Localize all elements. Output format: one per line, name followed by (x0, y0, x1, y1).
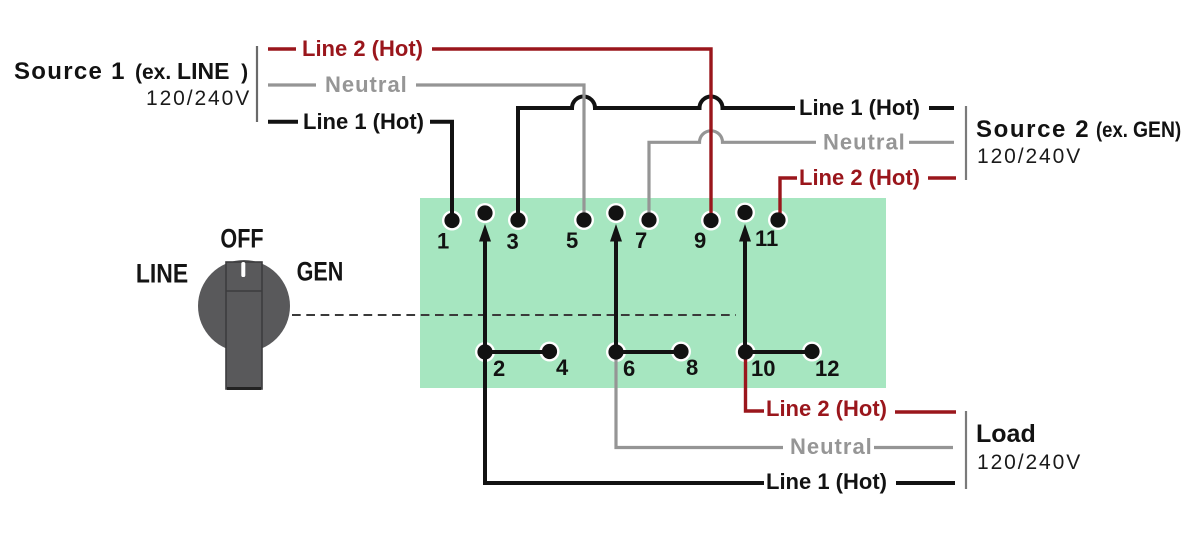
svg-text:3: 3 (507, 229, 519, 254)
svg-text:Source 2: Source 2 (976, 116, 1090, 143)
svg-text:Line 2 (Hot): Line 2 (Hot) (302, 36, 423, 61)
svg-text:7: 7 (635, 228, 647, 253)
svg-text:(ex. LINE ): (ex. LINE ) (135, 58, 248, 84)
svg-text:9: 9 (694, 228, 706, 253)
svg-text:Neutral: Neutral (823, 130, 906, 155)
svg-text:(ex. GEN): (ex. GEN) (1096, 118, 1181, 142)
svg-text:Source 1: Source 1 (14, 58, 126, 85)
svg-text:12: 12 (815, 356, 839, 381)
svg-text:2: 2 (493, 356, 505, 381)
svg-text:LINE: LINE (136, 259, 188, 289)
svg-text:OFF: OFF (220, 224, 263, 254)
svg-text:5: 5 (566, 228, 578, 253)
svg-text:Line 1 (Hot): Line 1 (Hot) (303, 109, 424, 134)
svg-text:10: 10 (751, 356, 775, 381)
svg-text:Line 1 (Hot): Line 1 (Hot) (766, 469, 887, 494)
svg-text:4: 4 (556, 355, 569, 380)
svg-text:120/240V: 120/240V (146, 87, 251, 110)
svg-text:Load: Load (976, 420, 1036, 448)
svg-text:11: 11 (755, 226, 778, 251)
svg-text:Neutral: Neutral (325, 72, 408, 97)
svg-text:Neutral: Neutral (790, 434, 873, 459)
svg-text:120/240V: 120/240V (977, 145, 1082, 168)
svg-text:Line 1 (Hot): Line 1 (Hot) (799, 95, 920, 120)
svg-text:Line 2 (Hot): Line 2 (Hot) (799, 165, 920, 190)
svg-text:1: 1 (437, 229, 449, 254)
svg-text:GEN: GEN (297, 257, 344, 287)
svg-text:Line 2 (Hot): Line 2 (Hot) (766, 396, 887, 421)
svg-text:6: 6 (623, 356, 635, 381)
svg-text:8: 8 (686, 355, 698, 380)
svg-text:120/240V: 120/240V (977, 451, 1082, 474)
